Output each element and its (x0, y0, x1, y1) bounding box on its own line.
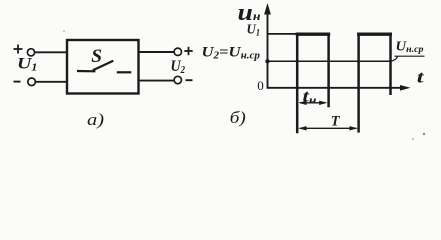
svg-text:0: 0 (257, 78, 264, 93)
terminal circle output top (174, 48, 181, 55)
wire input top (35, 51, 67, 53)
junction dot on axis (265, 59, 269, 63)
terminal plus input (14, 45, 23, 54)
terminal circle output bottom (174, 76, 181, 83)
terminal circle input bottom (28, 78, 36, 86)
switch box outline (67, 40, 139, 94)
switch S blade (93, 61, 114, 70)
svg-text:S: S (91, 46, 102, 67)
svg-text:а): а) (87, 110, 104, 129)
level line Un.av (268, 60, 392, 62)
terminal minus input (14, 81, 21, 83)
wire input bottom (36, 81, 67, 83)
svg-text:T: T (331, 113, 341, 129)
leader to Un.av label (390, 56, 398, 61)
pulse 1 right edge (327, 33, 330, 107)
terminal plus output (184, 47, 192, 55)
switch S right contact (117, 71, 132, 73)
axis t horizontal (267, 87, 402, 89)
level line U1 (268, 33, 298, 35)
pulse 2 top (357, 33, 392, 36)
pulse 1 top (296, 33, 331, 36)
pulse 1 left edge (296, 33, 299, 133)
dimension t_n arrow (298, 101, 327, 105)
svg-text:б): б) (230, 108, 246, 127)
axis u vertical (267, 12, 269, 89)
wire output bottom (139, 80, 175, 82)
wire output top (139, 51, 175, 53)
dimension T arrow (298, 126, 357, 130)
switch S left contact (77, 70, 95, 73)
scan speckles (423, 133, 425, 135)
terminal minus output (186, 79, 193, 81)
terminal circle input top (27, 49, 34, 56)
pulse 2 right edge (389, 33, 392, 95)
pulse 2 left edge (357, 33, 360, 133)
